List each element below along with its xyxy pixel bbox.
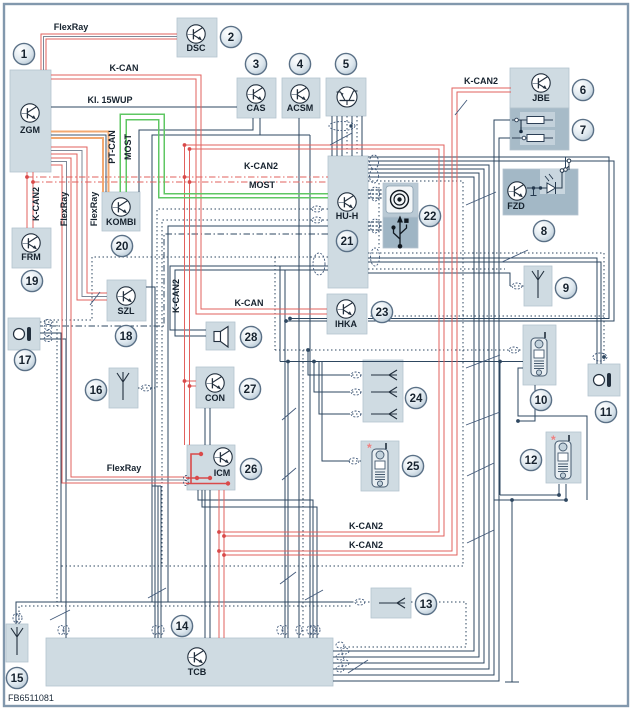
control unit FZD box: [503, 169, 578, 215]
node 15: [6, 667, 27, 688]
wire K-CAN2 CON branch: [185, 380, 197, 382]
wire mic17 line a: [40, 333, 61, 602]
wire dotted rect box22: [378, 183, 380, 248]
svg-text:HU-H: HU-H: [336, 211, 359, 221]
wire PT-CAN orange inner: [51, 138, 103, 192]
transistor icon box 5: [337, 87, 358, 107]
svg-text:K-CAN2: K-CAN2: [349, 540, 383, 550]
wire HU-H left dotted 220: [162, 220, 328, 566]
speaker icon 28: [214, 327, 228, 348]
svg-text:16: 16: [90, 385, 103, 397]
wire antenna9 stub: [510, 285, 524, 287]
icon ZGM: [21, 104, 39, 122]
antenna icon 13: [379, 598, 405, 608]
wire PT-CAN navy core: [51, 135, 106, 192]
node 27: [239, 378, 260, 399]
svg-text:23: 23: [376, 307, 389, 319]
roof antenna box 9: [524, 266, 552, 306]
node 20: [111, 235, 132, 256]
phone icon 12: [555, 435, 571, 479]
wire speaker loop a: [170, 266, 328, 330]
svg-text:5: 5: [343, 59, 350, 71]
wire K-CAN pair: [51, 75, 327, 309]
wire node drop x500: [499, 362, 501, 496]
usb icon box 22: [391, 216, 408, 249]
wire HU-H left solid: [168, 226, 328, 602]
svg-text:15: 15: [11, 673, 24, 685]
svg-text:JBE: JBE: [532, 93, 550, 103]
amplifier box 5: [326, 78, 366, 116]
control unit KOMBI box: [102, 192, 140, 231]
wire bundle box5 to HU-H: [331, 116, 333, 156]
icon CON: [206, 374, 224, 392]
svg-text:SZL: SZL: [118, 306, 136, 316]
wire K-CAN2 to JBE: [219, 88, 511, 551]
svg-text:24: 24: [410, 393, 423, 405]
control unit ACSM box: [282, 78, 320, 118]
wire K-CAN2 ICM-TCB: [218, 490, 220, 638]
node 21: [336, 230, 357, 251]
svg-text:FlexRay: FlexRay: [89, 192, 99, 227]
icon ACSM: [291, 85, 309, 103]
wire HU-H to antenna 9: [368, 273, 510, 286]
antenna icon 15: [11, 627, 23, 655]
svg-text:MOST: MOST: [123, 133, 133, 160]
wire shield solid b: [368, 262, 601, 364]
wire FlexRay gray cores: [44, 37, 178, 71]
fuse box 7: [510, 108, 569, 150]
svg-text:1: 1: [21, 49, 28, 61]
wire dotted antenna9 shield: [368, 268, 505, 270]
node 5: [335, 53, 356, 74]
wire K-CAN2 vertical pair: [184, 145, 186, 445]
wire phone10 feed solid: [280, 361, 523, 363]
control unit CAS box: [237, 78, 276, 118]
wire ICM bottom loop b: [202, 490, 317, 638]
svg-text:28: 28: [245, 332, 258, 344]
svg-text:9: 9: [563, 283, 569, 295]
svg-text:FB6511081: FB6511081: [8, 693, 54, 703]
control unit IHKA box: [327, 294, 367, 334]
wire speaker loop b: [175, 270, 328, 336]
control unit JBE box: [510, 68, 569, 108]
wire FlexRay to ICM: [51, 158, 186, 477]
node 4: [289, 53, 310, 74]
control unit HU-H box: [328, 156, 368, 288]
svg-text:ACSM: ACSM: [287, 103, 314, 113]
wire FZD stub b: [568, 160, 570, 161]
node 12: [520, 449, 541, 470]
svg-text:19: 19: [26, 276, 39, 288]
wire HU-H to box22 stubs: [368, 190, 383, 230]
node 8: [533, 220, 554, 241]
antenna icon 9: [532, 270, 544, 298]
antenna diversity box 24: [363, 360, 403, 422]
svg-text:PT-CAN: PT-CAN: [107, 130, 117, 164]
wire ICM bottom loop a: [198, 490, 313, 638]
node 19: [21, 270, 42, 291]
control unit SZL box: [107, 280, 146, 321]
node 17: [14, 349, 35, 370]
icon FRM: [22, 234, 40, 252]
control unit TCB box: [46, 638, 333, 686]
svg-text:ZGM: ZGM: [20, 125, 40, 135]
wire fuse2 down: [333, 138, 510, 681]
ICM red hook: [186, 454, 228, 484]
node 18: [115, 325, 136, 346]
wire box13 right dotted to TCB: [343, 602, 466, 647]
svg-text:4: 4: [297, 59, 304, 71]
svg-text:FRM: FRM: [21, 252, 41, 262]
wire MOST KOMBI-HU-H: [120, 114, 328, 194]
wire CON down a: [204, 408, 206, 638]
svg-text:20: 20: [116, 241, 129, 253]
svg-text:K-CAN: K-CAN: [110, 63, 139, 73]
svg-text:IHKA: IHKA: [335, 319, 357, 329]
wire shield solid a: [368, 258, 597, 364]
slashes (bundle ticks): [50, 100, 528, 673]
svg-text:10: 10: [535, 395, 548, 407]
svg-text:MOST: MOST: [249, 180, 276, 190]
svg-text:DSC: DSC: [186, 43, 206, 53]
phone icon 10: [531, 332, 547, 376]
node 11: [595, 401, 616, 422]
wire bottom bus solid: [16, 602, 352, 624]
node 13: [415, 593, 436, 614]
wire SZL right down: [146, 287, 155, 638]
svg-text:K-CAN2: K-CAN2: [464, 76, 498, 86]
icon TCB: [188, 648, 206, 666]
telephone box 12: [546, 432, 581, 483]
control unit DSC box: [177, 18, 217, 57]
antenna icon 16: [117, 372, 129, 400]
node 2: [220, 26, 241, 47]
control unit FRM box: [12, 228, 51, 268]
antenna icons box 24: [371, 370, 397, 380]
wire bundle box5 dotted: [346, 116, 348, 156]
AUX/USB box 22 lower: [383, 217, 418, 248]
svg-text:12: 12: [525, 455, 538, 467]
wire column 285: [284, 270, 286, 638]
control unit ZGM box: [10, 70, 51, 172]
svg-text:8: 8: [541, 226, 548, 238]
svg-text:FlexRay: FlexRay: [59, 192, 69, 227]
icon HU-H: [338, 193, 356, 211]
wire PT-CAN orange outer: [51, 132, 109, 193]
wire KI.15WUP ZGM-CAS: [51, 106, 237, 108]
icon IHKA: [337, 300, 355, 318]
telephone box 25: [361, 441, 399, 491]
wire phone12 to mic11: [494, 495, 566, 500]
wire FlexRay ZGM-DSC: [41, 34, 177, 70]
svg-text:K-CAN2: K-CAN2: [244, 161, 278, 171]
wire bottom bus dotted: [19, 606, 352, 624]
microphone box 11: [588, 364, 620, 396]
svg-text:18: 18: [120, 331, 133, 343]
wire box24 drop3: [319, 362, 350, 415]
wire box24 drop1: [308, 350, 350, 375]
node 23: [371, 301, 392, 322]
svg-text:27: 27: [244, 384, 257, 396]
FZD internals: [527, 159, 571, 196]
speaker box 28: [206, 322, 235, 350]
antenna box 15: [6, 624, 28, 662]
wire shield dotted 178 long: [60, 181, 463, 566]
antenna box 16: [109, 368, 138, 408]
microphone icon 17: [14, 327, 32, 341]
svg-text:3: 3: [253, 59, 259, 71]
wire mic17 dashed: [40, 322, 57, 606]
icon KOMBI: [112, 198, 130, 216]
connector ovals: [13, 122, 607, 673]
wire mic17 line b: [40, 339, 66, 638]
wire mic17 dashdot to HU-H: [40, 234, 328, 326]
wire HU-H right bundle to TCB: [333, 165, 489, 669]
svg-text:6: 6: [580, 85, 586, 97]
wire FlexRay to SZL: [51, 147, 107, 293]
wire K-CAN2 ZGM-FRM: [26, 172, 28, 228]
svg-text:11: 11: [600, 407, 613, 419]
wire phone10 feed dotted: [275, 257, 523, 350]
node 25: [402, 455, 423, 476]
wire ACSM down long: [298, 118, 300, 638]
svg-text:14: 14: [176, 621, 189, 633]
wire phone10 bottom link: [518, 385, 535, 421]
icon ICM: [214, 448, 232, 466]
junction dots red: [25, 143, 226, 557]
svg-text:FlexRay: FlexRay: [54, 22, 89, 32]
svg-text:K-CAN2: K-CAN2: [31, 187, 41, 221]
wire phone25 drop: [322, 362, 350, 462]
node 3: [245, 53, 266, 74]
phone icon 25: [372, 443, 388, 487]
svg-text:K-CAN2: K-CAN2: [171, 279, 181, 313]
svg-text:21: 21: [341, 236, 354, 248]
wire FZD stub a: [565, 157, 567, 168]
wire K-CAN2 dashdot ZGM-HU-H: [27, 176, 328, 178]
svg-text:K-CAN: K-CAN: [235, 298, 264, 308]
junction dots navy: [284, 124, 606, 502]
microphone icon 11: [594, 373, 612, 387]
icon CAS: [247, 85, 265, 103]
control unit CON box: [196, 367, 234, 408]
svg-text:CAS: CAS: [246, 103, 265, 113]
icon JBE: [532, 74, 550, 92]
node 16: [85, 379, 106, 400]
wire box13 stub: [352, 601, 371, 603]
svg-text:22: 22: [424, 211, 437, 223]
wire phone10 ground: [505, 368, 587, 682]
node 6: [572, 79, 593, 100]
node 26: [240, 458, 261, 479]
wire HU-H left dotted 209: [157, 209, 328, 388]
wire shield dotted top: [368, 253, 604, 361]
wire column dotted 303: [302, 350, 304, 638]
svg-text:*: *: [367, 441, 372, 455]
control unit ICM box: [187, 445, 235, 490]
svg-text:17: 17: [19, 355, 32, 367]
antenna box 13: [371, 588, 411, 618]
icon FZD: [508, 182, 526, 200]
wire K-CAN2 horizontal: [185, 145, 445, 536]
node 10: [530, 389, 551, 410]
fuse internals: [512, 112, 555, 145]
wire CON down b: [209, 408, 211, 638]
svg-text:KI. 15WUP: KI. 15WUP: [87, 95, 132, 105]
icon DSC: [187, 25, 205, 43]
wire box16 stub: [138, 387, 157, 389]
AUX/USB box 22 upper: [383, 183, 418, 217]
wire fuse1 down: [333, 120, 510, 675]
wire column 288: [287, 362, 289, 639]
microphone box 17: [8, 318, 40, 350]
icon SZL: [117, 287, 135, 305]
wire phone12 ground stub: [559, 484, 566, 500]
svg-text:25: 25: [407, 461, 420, 473]
wire box24 stubs: [348, 375, 364, 461]
node 14: [171, 615, 192, 636]
node 1: [13, 43, 34, 64]
node 28: [240, 326, 261, 347]
svg-text:FZD: FZD: [507, 201, 525, 211]
wire CAS to KOMBI: [139, 118, 253, 192]
telephone box 10: [523, 325, 556, 385]
aux icon box 22: [386, 186, 413, 213]
wire box24 drop2: [314, 362, 350, 393]
svg-text:FlexRay: FlexRay: [107, 463, 142, 473]
wire big dotted to mic17: [44, 257, 328, 320]
node 9: [555, 277, 576, 298]
svg-text:7: 7: [580, 125, 586, 137]
node 7: [572, 119, 593, 140]
wire ICM left columns: [152, 486, 161, 638]
wire CAS down long: [152, 118, 310, 638]
svg-text:*: *: [551, 433, 556, 447]
svg-text:KOMBI: KOMBI: [106, 217, 136, 227]
svg-text:TCB: TCB: [188, 667, 207, 677]
svg-text:ICM: ICM: [214, 468, 231, 478]
node 22: [419, 205, 440, 226]
svg-text:2: 2: [228, 32, 234, 44]
svg-text:K-CAN2: K-CAN2: [349, 521, 383, 531]
svg-text:13: 13: [420, 599, 433, 611]
node 24: [405, 387, 426, 408]
svg-text:26: 26: [245, 464, 258, 476]
svg-text:CON: CON: [205, 393, 225, 403]
